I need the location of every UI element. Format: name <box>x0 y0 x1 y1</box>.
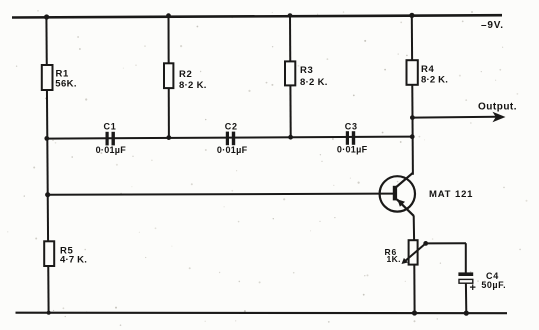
capacitor C1 <box>96 122 127 155</box>
svg-text:0·01µF: 0·01µF <box>96 145 127 155</box>
svg-text:MAT: MAT <box>429 189 451 200</box>
svg-text:R2: R2 <box>179 69 192 80</box>
wire R6 to ground <box>413 265 415 313</box>
wire left vertical branch <box>46 17 48 313</box>
capacitor C2 <box>217 122 248 155</box>
svg-text:8·2 K.: 8·2 K. <box>179 80 207 91</box>
svg-text:121: 121 <box>455 189 473 200</box>
svg-text:C3: C3 <box>345 122 358 132</box>
wire C4 top lead <box>465 243 467 272</box>
svg-text:50µF.: 50µF. <box>481 280 506 290</box>
svg-text:+: + <box>470 282 476 294</box>
output arrow <box>478 102 517 123</box>
node top rail / R2 <box>166 13 171 18</box>
node R6 wiper tap <box>423 241 428 246</box>
node output tap <box>410 115 415 120</box>
resistor R3 <box>285 61 328 88</box>
svg-text:R3: R3 <box>300 65 313 76</box>
variable resistor R6 <box>385 240 426 264</box>
svg-text:C1: C1 <box>104 122 117 132</box>
svg-text:4·7 K.: 4·7 K. <box>60 255 87 266</box>
resistor R1 <box>42 65 77 90</box>
node ground / C4 <box>464 311 469 316</box>
electrolytic capacitor C4 <box>458 271 506 294</box>
wire output horizontal <box>413 116 498 119</box>
wire base horizontal <box>48 194 394 195</box>
svg-text:8·2 K.: 8·2 K. <box>300 77 328 88</box>
wire wiper to C4 horizontal <box>426 242 466 244</box>
node C wire / R3 <box>288 135 293 140</box>
wire emitter diagonal <box>397 199 414 216</box>
svg-text:–9V.: –9V. <box>481 20 504 31</box>
svg-text:56K.: 56K. <box>55 78 77 89</box>
node top rail / R4 <box>409 13 414 18</box>
node C wire / R2 <box>166 135 171 140</box>
svg-text:1K.: 1K. <box>387 254 401 264</box>
node top rail / R1 <box>44 14 49 19</box>
resistor R5 <box>44 241 87 266</box>
svg-text:8·2 K.: 8·2 K. <box>421 74 448 85</box>
wire emitter to R6 <box>413 216 415 241</box>
wire R2 branch <box>168 16 170 138</box>
capacitor C3 <box>337 122 368 155</box>
wire top supply rail <box>12 15 502 17</box>
node C wire / R4 <box>410 134 415 139</box>
node top rail / R3 <box>288 13 293 18</box>
resistor R4 <box>407 60 449 85</box>
svg-text:Output.: Output. <box>478 102 517 113</box>
node ground / left branch <box>47 311 51 315</box>
svg-text:0·01µF: 0·01µF <box>217 145 248 155</box>
transistor Q1 MAT 121 <box>380 176 474 211</box>
wire R3 branch <box>289 16 292 138</box>
svg-text:C2: C2 <box>225 122 238 132</box>
node C wire / left branch <box>44 136 49 141</box>
wire R4 / collector branch <box>412 15 413 175</box>
wire capacitor ladder horizontal <box>47 137 413 139</box>
wire collector diagonal <box>396 173 413 187</box>
resistor R2 <box>164 63 207 91</box>
wire bottom ground rail <box>16 312 508 315</box>
node base wire / left branch <box>45 192 50 197</box>
node ground / R6 <box>412 310 417 315</box>
svg-text:0·01µF: 0·01µF <box>337 144 368 154</box>
wire C4 bottom lead <box>465 283 467 313</box>
